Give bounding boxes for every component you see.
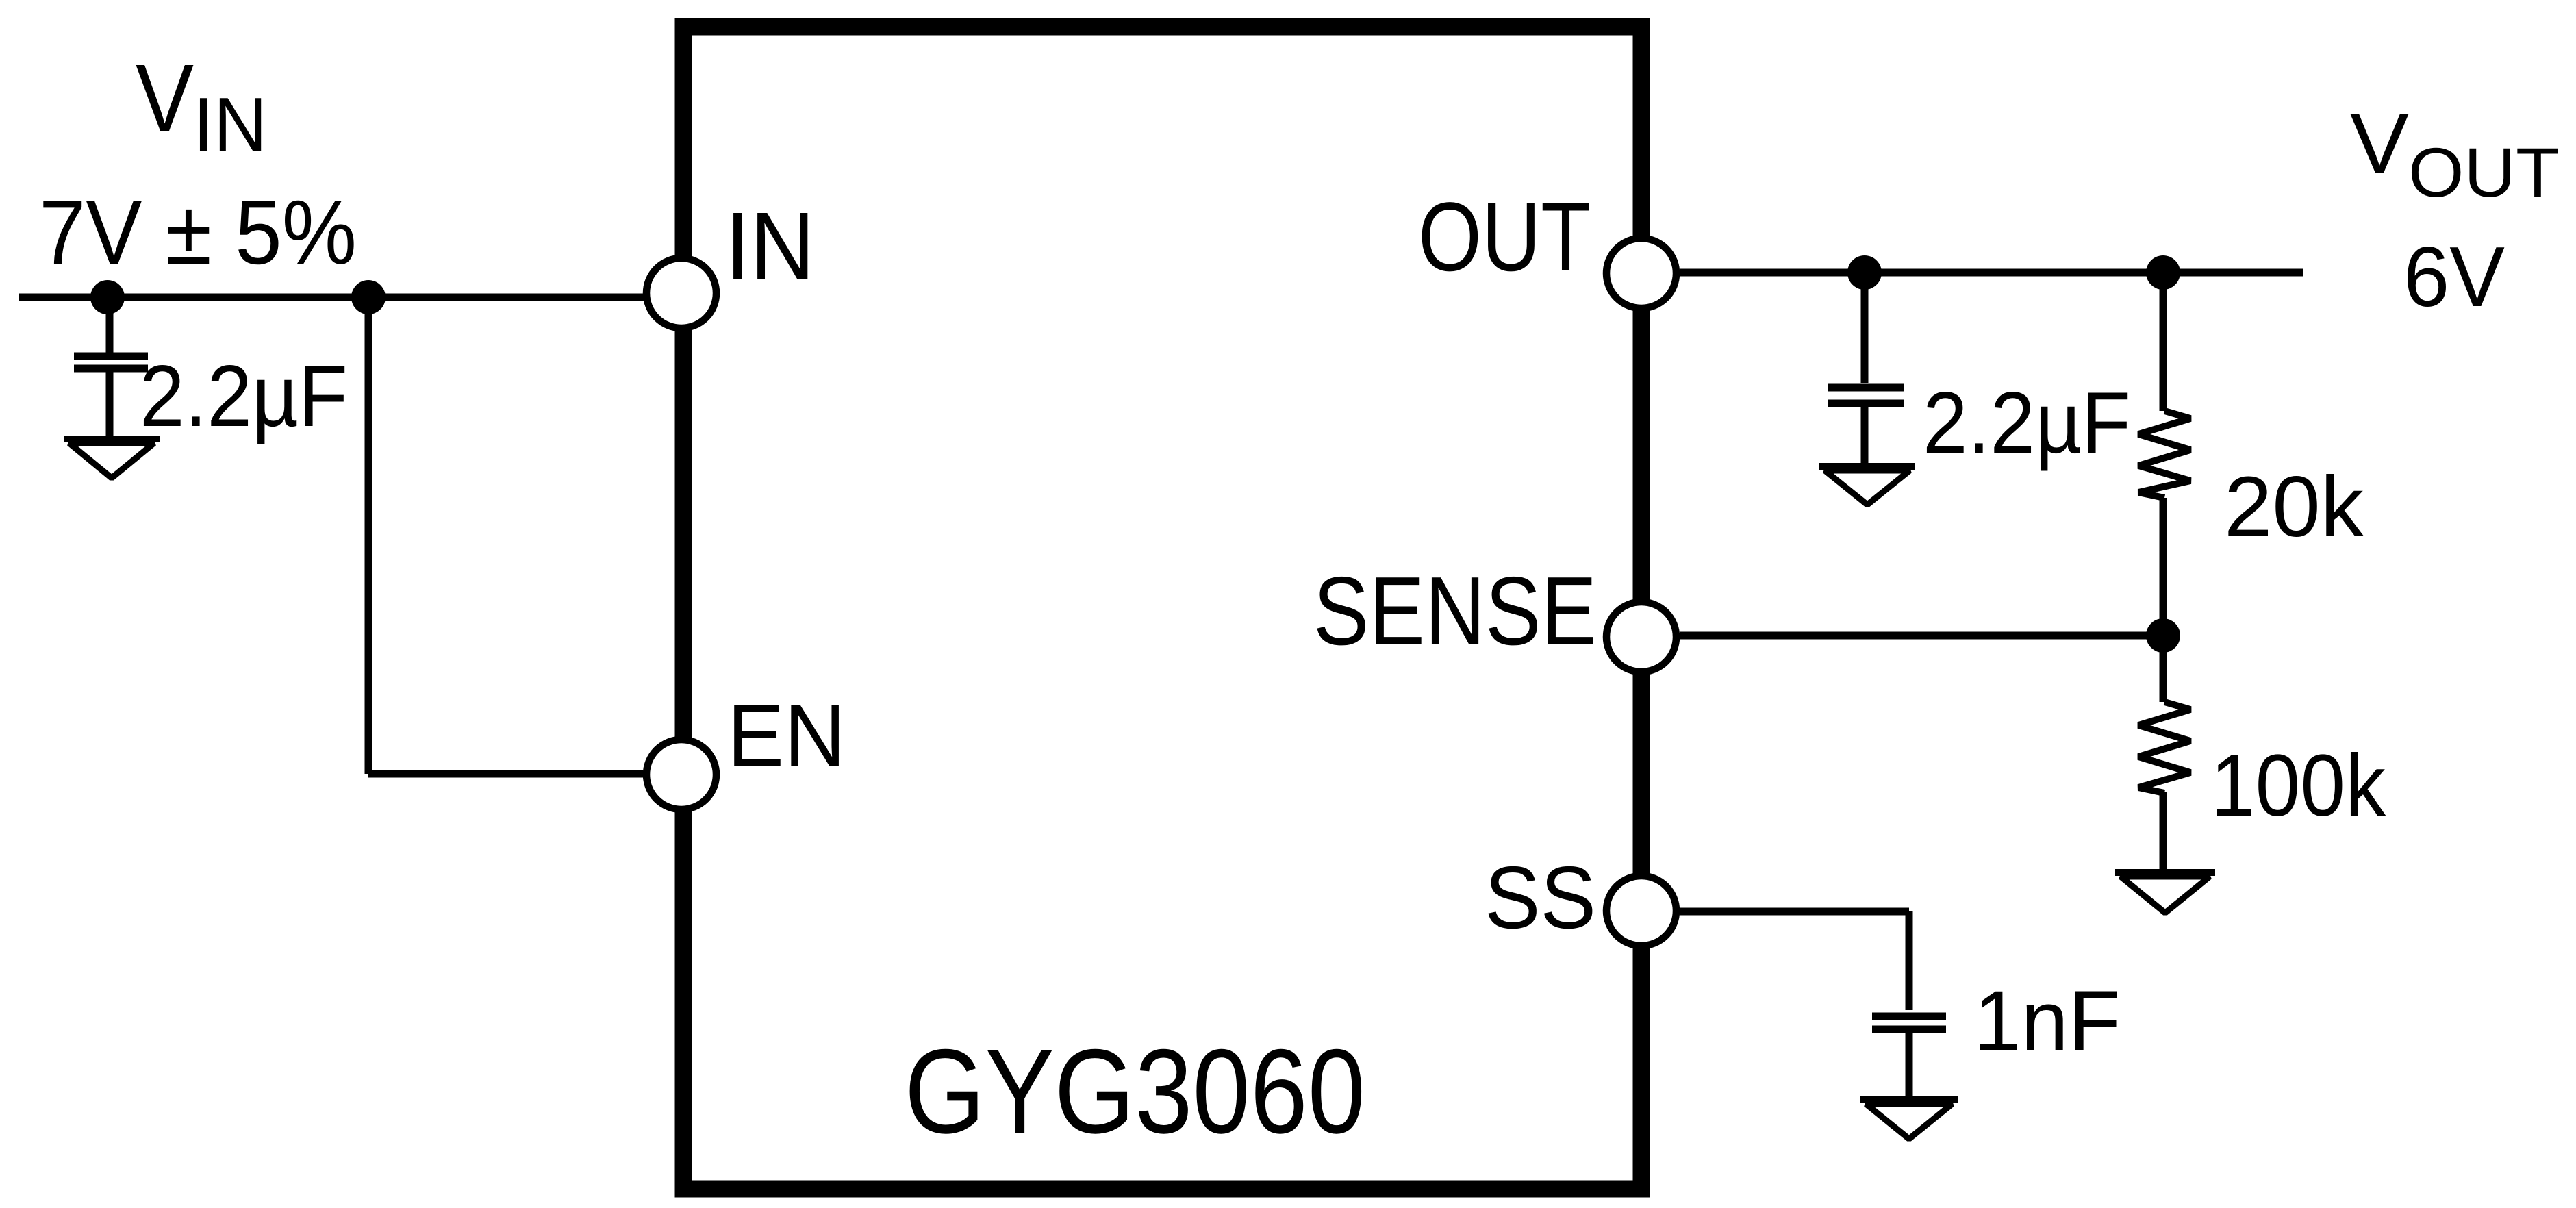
svg-text:EN: EN <box>727 687 846 785</box>
svg-text:SS: SS <box>1485 848 1596 947</box>
svg-text:OUT: OUT <box>2408 134 2560 212</box>
svg-text:OUT: OUT <box>1418 183 1591 292</box>
svg-text:IN: IN <box>725 192 815 300</box>
svg-text:7V ± 5%: 7V ± 5% <box>39 182 357 284</box>
svg-text:1nF: 1nF <box>1973 974 2121 1069</box>
svg-text:GYG3060: GYG3060 <box>905 1025 1365 1159</box>
svg-text:2.2µF: 2.2µF <box>140 347 348 444</box>
svg-text:V: V <box>136 44 194 152</box>
svg-text:2.2µF: 2.2µF <box>1923 374 2131 471</box>
svg-text:IN: IN <box>193 82 267 167</box>
svg-text:SENSE: SENSE <box>1313 557 1597 666</box>
svg-text:100k: 100k <box>2210 737 2386 835</box>
svg-text:6V: 6V <box>2403 230 2505 325</box>
svg-text:20k: 20k <box>2224 460 2364 555</box>
svg-text:V: V <box>2350 97 2409 191</box>
